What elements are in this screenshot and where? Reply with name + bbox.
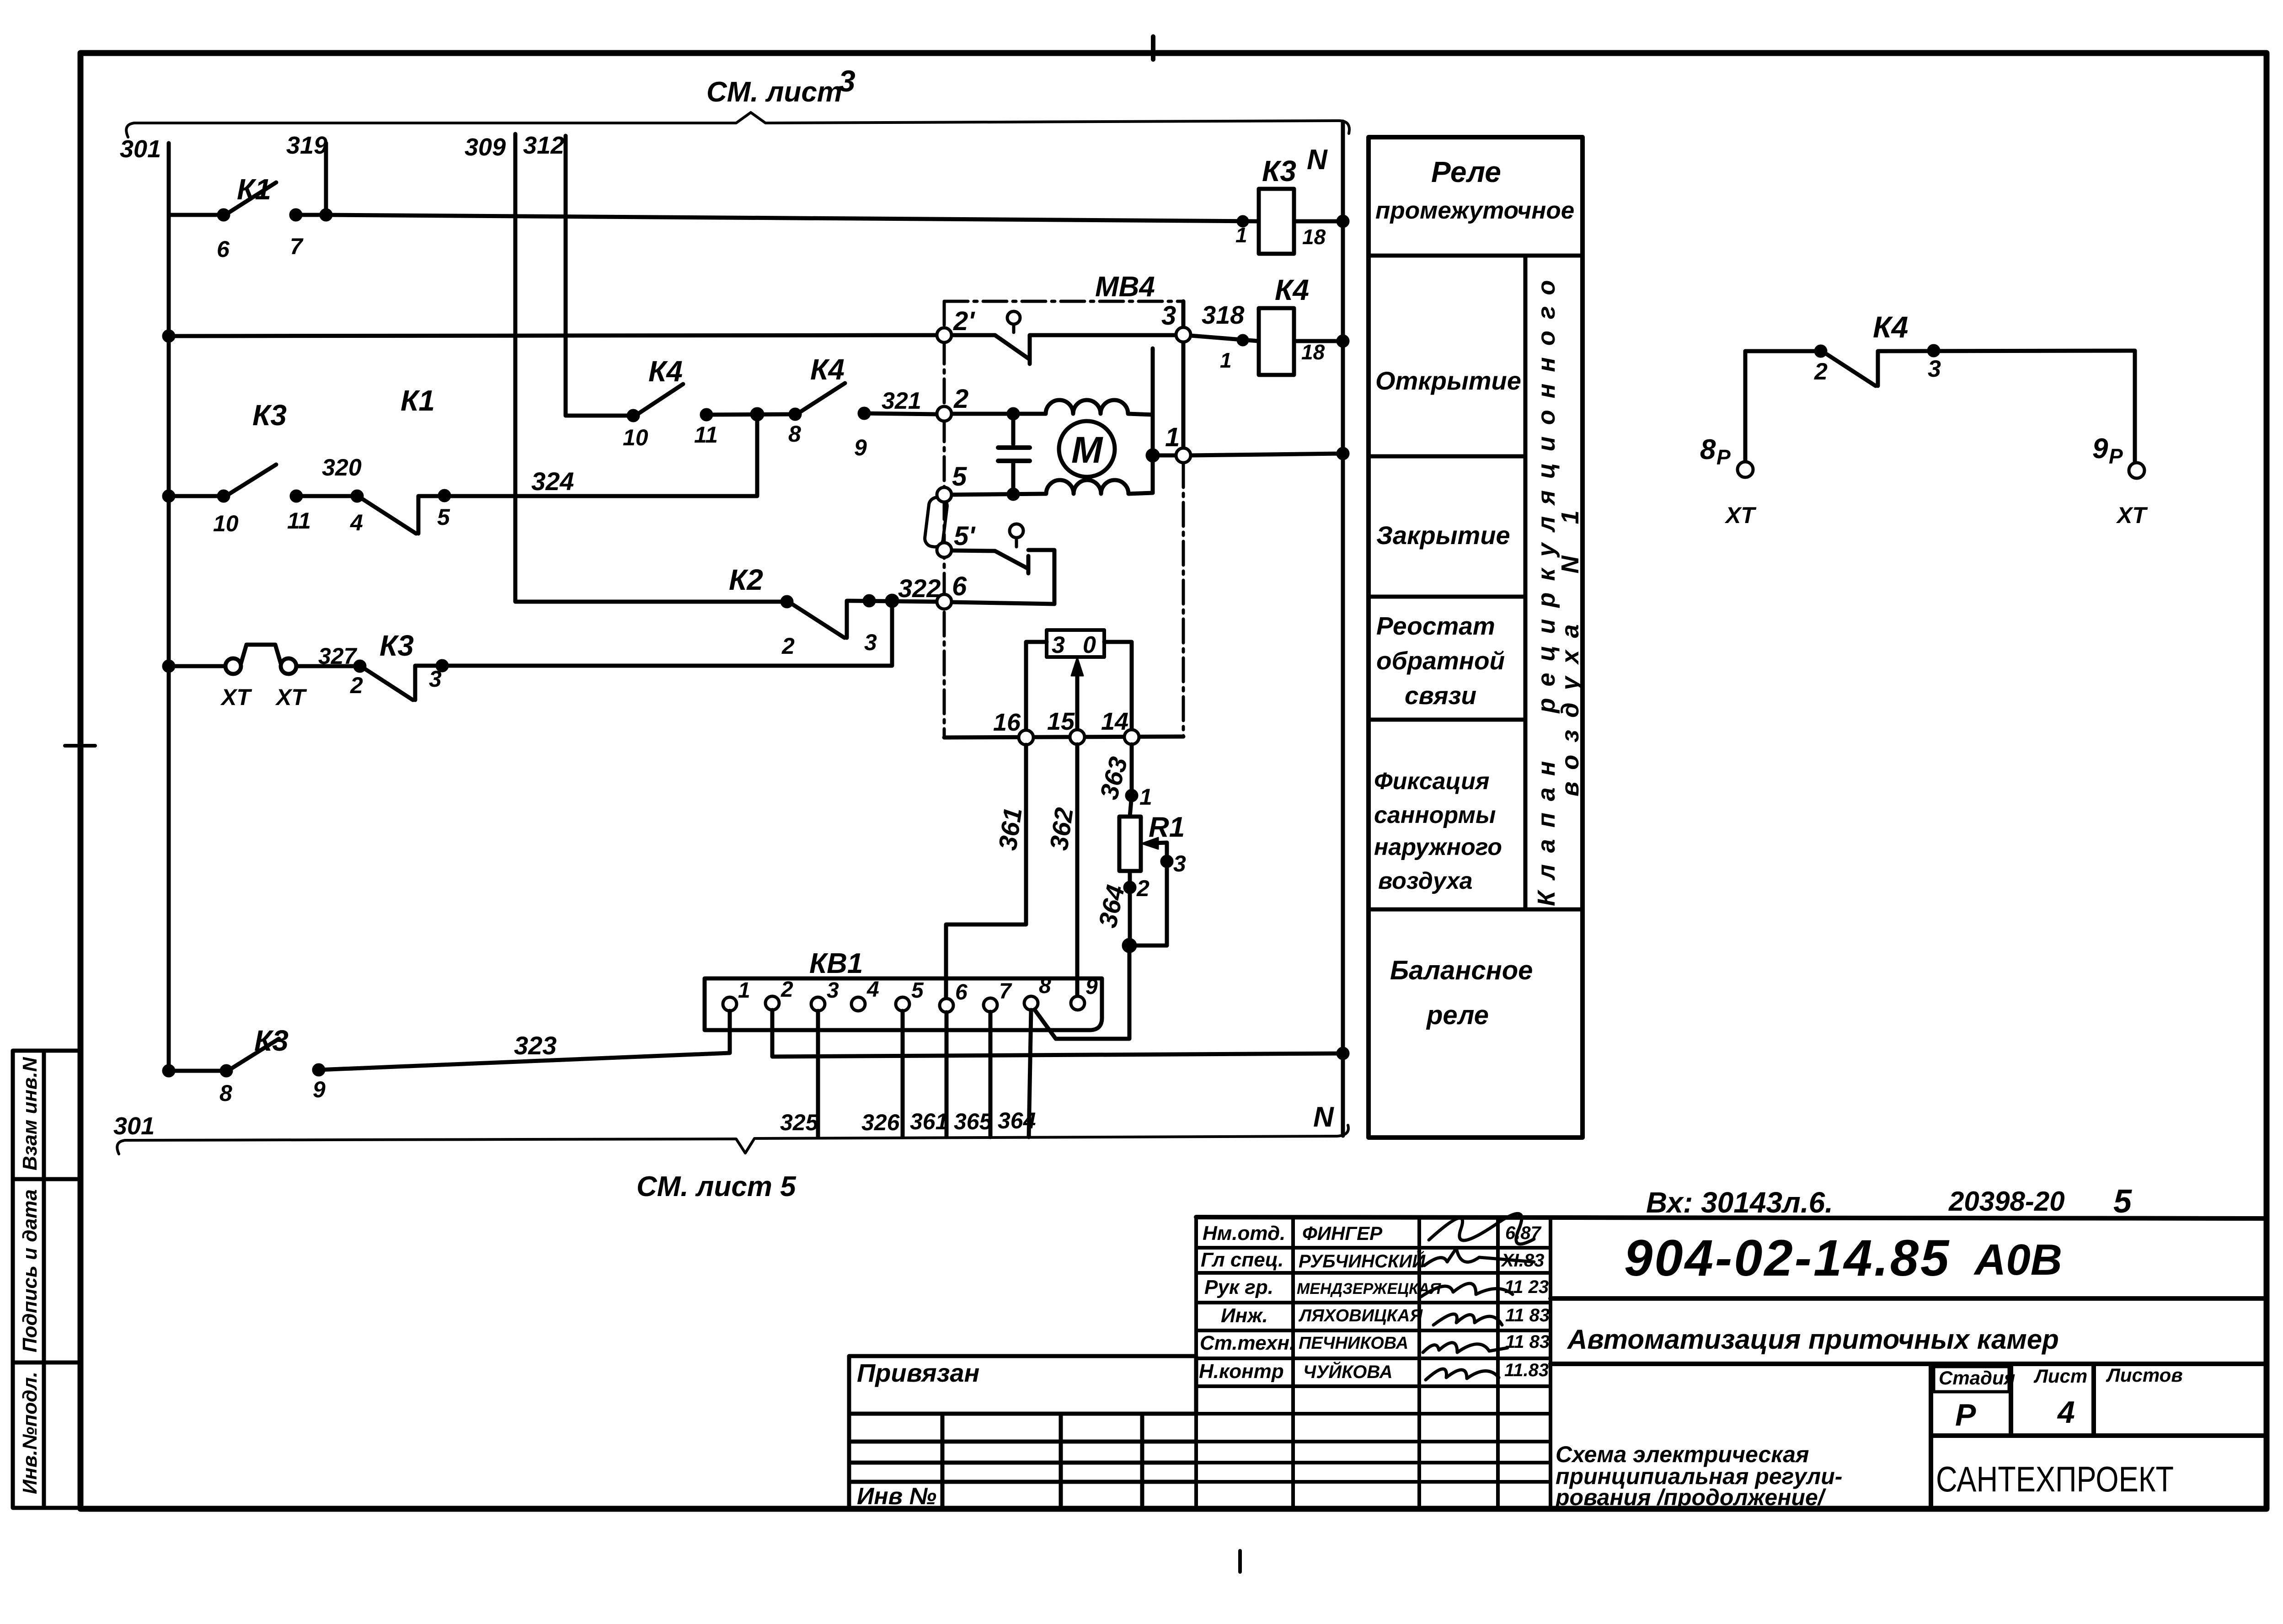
terminal XT 8P — [1738, 462, 1753, 477]
svg-text:Взам инв.N: Взам инв.N — [19, 1057, 41, 1170]
svg-text:1: 1 — [1139, 784, 1152, 810]
relay coil K3 — [1259, 189, 1294, 254]
table texts — [1374, 155, 1584, 1030]
svg-text:воздуха N 1: воздуха N 1 — [1556, 498, 1584, 796]
svg-text:10: 10 — [213, 511, 239, 536]
node 2 — [937, 406, 952, 421]
wire K3 coil to N — [1294, 219, 1343, 224]
svg-text:6.87: 6.87 — [1505, 1223, 1542, 1243]
KB1 pin 1 — [723, 997, 737, 1011]
svg-text:1: 1 — [1220, 348, 1232, 372]
svg-text:10: 10 — [623, 425, 648, 450]
node 6 — [937, 594, 952, 609]
wire 312 vertical — [566, 136, 631, 416]
wire 323 to KB1 pin 1 — [319, 1053, 730, 1070]
svg-text:К4: К4 — [810, 353, 845, 386]
svg-text:322: 322 — [898, 574, 941, 603]
signature squiggles — [1421, 1213, 1534, 1380]
centering mark top — [1151, 37, 1155, 59]
wire 364 from KB1 pin 8 — [1029, 1010, 1031, 1137]
svg-text:К3: К3 — [252, 399, 287, 432]
contact K4 (NO, terminals 8-9) — [799, 383, 845, 413]
svg-text:N: N — [1313, 1101, 1334, 1133]
svg-text:14: 14 — [1101, 708, 1128, 735]
svg-text:3: 3 — [839, 64, 855, 98]
svg-text:361: 361 — [993, 806, 1027, 852]
svg-text:326: 326 — [861, 1110, 900, 1135]
svg-text:3: 3 — [1173, 851, 1186, 876]
row 2: wire from bus 301 to MB4 node 2' — [169, 335, 938, 336]
wire to terminal 9P — [2133, 351, 2137, 463]
svg-text:МВ4: МВ4 — [1095, 271, 1155, 303]
svg-text:8: 8 — [1700, 434, 1716, 465]
svg-text:К1: К1 — [237, 173, 271, 206]
bus 301 (left vertical) — [167, 143, 171, 1071]
svg-text:Клапан рециркуляционного: Клапан рециркуляционного — [1533, 269, 1560, 906]
svg-text:327: 327 — [318, 643, 358, 669]
svg-text:воздуха: воздуха — [1378, 868, 1473, 894]
KB1 pin 4 — [851, 997, 865, 1011]
svg-text:320: 320 — [322, 454, 362, 481]
wire rheostat 3 to node 16 — [1026, 642, 1047, 730]
svg-text:2: 2 — [781, 978, 793, 1002]
function table frame — [1369, 137, 1583, 1138]
limit switch SQ2 (at 5') — [952, 550, 995, 551]
feedback rheostat box 3-0 — [1047, 630, 1104, 657]
svg-text:ХТ: ХТ — [220, 684, 252, 710]
svg-text:Р: Р — [1716, 445, 1731, 469]
wire 363 from node 14 to R1 — [1130, 744, 1132, 817]
svg-text:промежуточное: промежуточное — [1375, 197, 1574, 224]
svg-text:Инв.№подл.: Инв.№подл. — [19, 1372, 41, 1494]
svg-text:XI.83: XI.83 — [1501, 1250, 1544, 1271]
svg-text:Балансное: Балансное — [1390, 956, 1533, 985]
table row line under Реостат — [1369, 718, 1525, 722]
svg-text:Фиксация: Фиксация — [1374, 768, 1490, 795]
wire 319 stub — [324, 143, 328, 215]
svg-text:Листов: Листов — [2106, 1364, 2183, 1386]
KB1 pin 9 — [1071, 996, 1085, 1010]
svg-text:Инв №: Инв № — [857, 1483, 936, 1510]
MB4 actuator enclosure top (dash-dot) — [944, 300, 1183, 303]
svg-text:18: 18 — [1301, 340, 1325, 364]
node 16 — [1019, 730, 1033, 745]
svg-text:2': 2' — [953, 306, 975, 336]
привязан box — [849, 1356, 1196, 1507]
svg-text:6: 6 — [217, 236, 230, 262]
connector KB1 body — [705, 978, 1102, 1030]
svg-text:рования /продолжение/: рования /продолжение/ — [1555, 1485, 1827, 1510]
svg-text:1: 1 — [1235, 223, 1247, 247]
contact K1 (NC, terminals 4-5) — [361, 498, 416, 534]
svg-text:Вх: 30143л.6.: Вх: 30143л.6. — [1646, 1186, 1833, 1219]
table inner vertical — [1524, 256, 1528, 909]
svg-text:ХТ: ХТ — [275, 684, 307, 710]
svg-text:N: N — [1307, 144, 1328, 176]
node 5 — [937, 487, 952, 502]
title block top line — [1196, 1217, 2267, 1218]
wire 365 from KB1 pin 7 — [989, 1012, 993, 1137]
svg-text:7: 7 — [290, 234, 304, 259]
svg-text:11: 11 — [287, 508, 311, 534]
MB4 enclosure right side lower (dash-dot) — [1182, 464, 1185, 737]
wire common to node 1 — [1153, 454, 1176, 458]
svg-text:1: 1 — [1165, 422, 1180, 452]
svg-text:ФИНГЕР: ФИНГЕР — [1302, 1223, 1383, 1244]
svg-text:9: 9 — [854, 435, 867, 460]
svg-text:2: 2 — [350, 673, 363, 698]
R1 wiper wire — [1165, 843, 1169, 946]
table row line under Реле промежуточное — [1369, 254, 1583, 258]
wire node 6 to switch SQ2 — [952, 602, 1054, 604]
svg-text:К4: К4 — [648, 355, 683, 388]
svg-text:5: 5 — [952, 462, 967, 491]
row 3: wire from bus 301 — [169, 494, 224, 498]
wire row4 to K2 row — [415, 601, 892, 666]
wire 318 node3 to K4 coil — [1191, 336, 1259, 341]
wire 362 from node 15 to KB1 pin 9 — [1075, 744, 1080, 997]
svg-text:365: 365 — [954, 1109, 993, 1134]
bottom continuation bracket (см. лист 5) — [117, 1125, 1348, 1154]
svg-text:Инж.: Инж. — [1221, 1304, 1268, 1327]
motor M — [1059, 421, 1115, 477]
motor winding upper — [1046, 400, 1153, 415]
resistor R1 — [1119, 817, 1141, 871]
svg-text:К3: К3 — [380, 629, 414, 662]
svg-text:Р: Р — [1955, 1398, 1976, 1432]
svg-text:0: 0 — [1083, 632, 1096, 658]
svg-text:364: 364 — [998, 1108, 1036, 1133]
wire 361 from KB1 pin 6 — [945, 1012, 949, 1137]
svg-text:обратной: обратной — [1376, 646, 1505, 675]
contact K2 (NC, terminals 2-3) — [791, 603, 845, 638]
svg-text:1: 1 — [738, 978, 750, 1003]
row 2b: wire 312 corner to contact K4 — [566, 414, 633, 418]
bus N (right vertical) — [1341, 122, 1345, 1136]
svg-text:18: 18 — [1302, 225, 1326, 249]
svg-text:324: 324 — [531, 467, 574, 496]
svg-text:5': 5' — [954, 521, 976, 551]
wire 309 vertical — [515, 134, 787, 602]
wire R1 to KB1 pin 8 — [1034, 946, 1129, 1039]
relay coil K4 — [1259, 308, 1294, 375]
contact K3 (NC, terminals 2-3) — [364, 668, 413, 700]
svg-text:Р: Р — [2109, 444, 2123, 468]
junction 319/row1 — [321, 210, 331, 219]
table row line under Открытие — [1369, 454, 1525, 459]
heater element between 5 and 5' — [924, 497, 948, 548]
wire 326 from KB1 pin 5 — [901, 1011, 905, 1137]
table row line under Закрытие — [1369, 595, 1525, 599]
node 3 — [1176, 327, 1191, 342]
motor common vertical — [1151, 348, 1155, 493]
isolated contact K4 (terminals 2-3, to XT 8P/9P) — [1745, 349, 1821, 353]
svg-text:11 23: 11 23 — [1504, 1277, 1549, 1297]
svg-text:3: 3 — [429, 666, 442, 692]
svg-text:325: 325 — [780, 1110, 819, 1135]
svg-text:М: М — [1071, 429, 1103, 471]
svg-text:2: 2 — [781, 633, 795, 659]
svg-text:2: 2 — [953, 384, 968, 414]
left margin stamp boxes — [13, 1051, 80, 1508]
svg-text:6: 6 — [952, 572, 967, 601]
svg-text:2: 2 — [1136, 876, 1150, 901]
terminal XT (left) — [225, 658, 241, 674]
svg-text:наружного: наружного — [1374, 834, 1502, 860]
svg-text:2: 2 — [1814, 358, 1828, 385]
svg-text:КВ1: КВ1 — [809, 948, 863, 979]
svg-text:Привязан: Привязан — [857, 1358, 979, 1387]
wire 11 to 8 with 324 junction — [706, 414, 795, 415]
svg-text:8: 8 — [219, 1080, 232, 1106]
wire K4 coil to N — [1294, 339, 1343, 343]
wire rheostat frame to node 14 — [1104, 642, 1132, 730]
svg-text:РУБЧИНСКИЙ: РУБЧИНСКИЙ — [1299, 1250, 1426, 1271]
svg-text:реле: реле — [1426, 1000, 1489, 1030]
row 1: wire from bus 301 — [169, 213, 224, 217]
svg-text:8: 8 — [788, 421, 801, 447]
wire 321 to node 2 — [864, 413, 937, 414]
node 1 — [1176, 448, 1191, 463]
terminal XT (right) — [281, 658, 296, 674]
svg-text:Реостат: Реостат — [1376, 612, 1495, 640]
KB1 pin 2 — [765, 996, 779, 1010]
KB1 pin 8 — [1024, 996, 1038, 1010]
svg-text:20398-20: 20398-20 — [1948, 1186, 2065, 1217]
wire row1 to K3 coil — [296, 215, 1259, 221]
wiper wire from node 15 with arrow — [1075, 664, 1080, 730]
svg-text:А0В: А0В — [1973, 1235, 2062, 1284]
svg-text:362: 362 — [1044, 806, 1078, 852]
svg-text:Н.контр: Н.контр — [1199, 1360, 1284, 1383]
svg-text:Автоматизация приточных камер: Автоматизация приточных камер — [1567, 1324, 2059, 1355]
node 7 dot — [291, 210, 300, 219]
svg-text:связи: связи — [1405, 681, 1476, 710]
svg-text:К3: К3 — [1262, 155, 1296, 187]
svg-text:11 83: 11 83 — [1505, 1305, 1550, 1325]
MB4 enclosure bottom terminal row — [944, 737, 1183, 737]
svg-text:321: 321 — [882, 388, 921, 414]
svg-text:312: 312 — [523, 132, 564, 159]
svg-text:саннормы: саннормы — [1374, 802, 1496, 828]
svg-text:R1: R1 — [1149, 812, 1185, 843]
wire 325 from KB1 pin 3 — [816, 1011, 820, 1137]
svg-text:ХТ: ХТ — [1724, 502, 1757, 528]
svg-text:301: 301 — [113, 1112, 155, 1140]
node 14 — [1124, 730, 1139, 744]
top continuation bracket (см. лист 3) — [126, 112, 1349, 137]
svg-text:Ст.техн.: Ст.техн. — [1200, 1332, 1295, 1354]
svg-text:9: 9 — [1085, 975, 1098, 999]
KB1 pin 6 — [940, 999, 953, 1012]
svg-text:Закрытие: Закрытие — [1376, 521, 1510, 550]
node 15 — [1070, 730, 1085, 744]
svg-text:3: 3 — [1161, 301, 1176, 331]
MB4 enclosure right side upper (solid wire) — [1182, 301, 1186, 456]
centering mark bottom — [1238, 1551, 1242, 1572]
limit switch SQ1 (between 2' and 3) — [952, 333, 995, 337]
KB1 pin 5 — [896, 997, 909, 1011]
svg-text:К4: К4 — [1275, 273, 1309, 306]
svg-text:ЛЯХОВИЦКАЯ: ЛЯХОВИЦКАЯ — [1298, 1306, 1423, 1325]
wire to terminal 8P — [1743, 351, 1748, 462]
contact K1 (NO, terminals 6-7) — [227, 182, 276, 214]
svg-text:МЕНДЗЕРЖЕЦКАЯ: МЕНДЗЕРЖЕЦКАЯ — [1297, 1280, 1441, 1298]
node 5' — [937, 543, 952, 557]
svg-text:ХТ: ХТ — [2116, 502, 2148, 528]
svg-text:361: 361 — [910, 1109, 948, 1134]
svg-text:319: 319 — [286, 132, 327, 159]
wire 327 — [296, 664, 360, 668]
wire KB1 pin 1 to wire 323 — [728, 1011, 732, 1053]
svg-text:4: 4 — [866, 978, 879, 1002]
wire 364 below R1 — [1128, 871, 1132, 946]
svg-text:ЧУЙКОВА: ЧУЙКОВА — [1303, 1361, 1393, 1382]
svg-text:9: 9 — [2092, 433, 2108, 465]
svg-text:323: 323 — [514, 1031, 556, 1060]
left margin texts — [19, 1057, 41, 1494]
svg-text:11: 11 — [694, 422, 718, 448]
svg-text:309: 309 — [465, 134, 506, 161]
svg-text:К3: К3 — [254, 1024, 289, 1057]
svg-text:СМ. лист: СМ. лист — [706, 76, 842, 108]
svg-text:3: 3 — [1928, 356, 1941, 382]
wire 324 — [418, 414, 757, 496]
svg-text:3: 3 — [827, 978, 839, 1003]
KB1 pin 7 — [984, 998, 997, 1012]
svg-text:Открытие: Открытие — [1375, 366, 1521, 395]
node 6 dot — [219, 210, 228, 219]
svg-text:4: 4 — [350, 510, 363, 535]
jumper bump between XT terminals — [241, 645, 281, 663]
centering mark left — [65, 744, 95, 748]
wire KB1 pin 2 to bus N — [772, 1010, 1343, 1057]
svg-text:3: 3 — [1052, 632, 1065, 658]
svg-text:318: 318 — [1202, 300, 1245, 329]
svg-text:8: 8 — [1039, 974, 1051, 998]
node 2' — [937, 328, 952, 342]
MB4 enclosure left side (dash-dot) — [943, 301, 946, 737]
contact K4 (NO, terminals 10-11) — [637, 384, 683, 414]
svg-text:Рук гр.: Рук гр. — [1204, 1276, 1273, 1298]
svg-text:СМ. лист 5: СМ. лист 5 — [636, 1171, 797, 1202]
svg-text:К2: К2 — [729, 563, 763, 596]
wire 320 — [296, 494, 357, 498]
svg-text:Гл спец.: Гл спец. — [1201, 1249, 1283, 1271]
signature table — [1196, 1217, 1551, 1507]
svg-text:11.83: 11.83 — [1504, 1360, 1549, 1380]
KB1 pin 3 — [811, 997, 825, 1011]
contact K3 (NO, terminals 10-11) — [227, 465, 276, 495]
svg-text:9: 9 — [313, 1077, 326, 1102]
table row line under Фиксация — [1369, 908, 1583, 912]
svg-text:5: 5 — [437, 504, 450, 530]
svg-text:301: 301 — [120, 135, 161, 163]
svg-text:904-02-14.85: 904-02-14.85 — [1624, 1229, 1951, 1287]
motor feed wire from node 2 — [952, 412, 1046, 416]
svg-text:11 83: 11 83 — [1505, 1332, 1550, 1352]
row 5: bottom contact K3 (NO, terminals 8-9) — [169, 1069, 226, 1073]
svg-text:САНТЕХПРОЕКТ: САНТЕХПРОЕКТ — [1936, 1459, 2174, 1499]
svg-text:15: 15 — [1047, 708, 1075, 735]
capacitor C — [1011, 414, 1016, 444]
svg-text:Подпись и дата: Подпись и дата — [19, 1189, 41, 1352]
svg-text:Нм.отд.: Нм.отд. — [1203, 1222, 1285, 1245]
svg-text:Стадия: Стадия — [1939, 1367, 2015, 1389]
svg-text:Лист: Лист — [2033, 1365, 2087, 1387]
svg-text:ПЕЧНИКОВА: ПЕЧНИКОВА — [1299, 1334, 1408, 1353]
wire node 1 to N — [1191, 454, 1343, 455]
title block right section lines — [1551, 1298, 2267, 1509]
motor winding lower — [952, 480, 1153, 495]
R1 wiper arrow — [1142, 838, 1158, 849]
svg-text:5: 5 — [2113, 1183, 2132, 1220]
svg-text:Реле: Реле — [1431, 155, 1501, 188]
svg-text:4: 4 — [2057, 1395, 2075, 1430]
row 4: wire from bus 301 — [169, 664, 225, 668]
svg-text:6: 6 — [955, 980, 968, 1004]
wire 322 to node 6 — [847, 601, 937, 602]
terminal XT 9P — [2129, 463, 2144, 478]
svg-text:16: 16 — [993, 709, 1021, 736]
title block texts — [857, 1183, 2183, 1510]
junction R1 bottom — [1130, 944, 1167, 948]
svg-text:3: 3 — [864, 630, 877, 655]
svg-text:К4: К4 — [1873, 310, 1908, 344]
svg-text:5: 5 — [911, 978, 924, 1003]
svg-text:7: 7 — [999, 979, 1012, 1004]
svg-text:К1: К1 — [401, 384, 435, 417]
wire 361 from node 16 to KB1 pin 6 — [946, 745, 1026, 999]
